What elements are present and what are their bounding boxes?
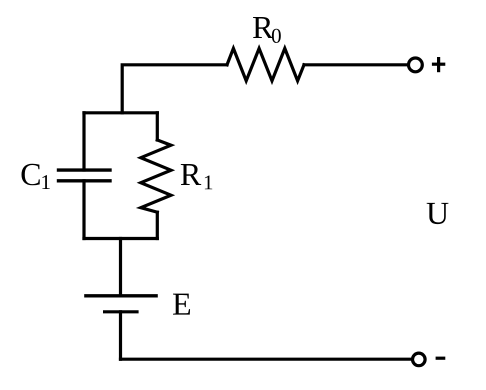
wire box bottom to battery: [119, 239, 122, 296]
battery E: [84, 296, 158, 312]
resistor R1: [141, 140, 171, 212]
plus symbol: [432, 57, 445, 72]
label R1: [181, 164, 212, 189]
wire R0 to + terminal: [304, 63, 408, 66]
wire battery to bottom rail: [119, 312, 122, 359]
wire right branch upper: [156, 113, 159, 140]
wire left branch lower: [82, 181, 85, 239]
terminal - circle: [413, 353, 426, 366]
minus symbol: [436, 357, 446, 360]
terminal + circle: [409, 58, 423, 72]
wire right branch lower: [156, 212, 159, 238]
wire parallel box top: [84, 111, 157, 114]
label C1: [22, 164, 50, 189]
wire top node to R0: [122, 65, 227, 113]
label E: [173, 294, 190, 315]
wire left branch upper: [82, 113, 85, 170]
resistor R0: [227, 48, 304, 80]
label R0: [253, 17, 281, 43]
capacitor C1: [57, 170, 112, 181]
wire bottom rail to - terminal: [121, 358, 413, 361]
wire parallel box bottom: [84, 237, 157, 240]
label U: [427, 203, 449, 224]
